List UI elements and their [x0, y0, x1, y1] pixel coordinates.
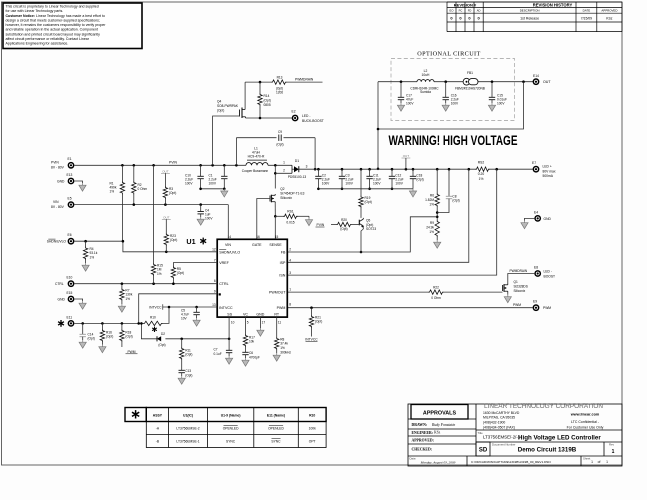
- svg-text:E9: E9: [533, 300, 537, 304]
- title block: [408, 404, 622, 466]
- svg-text:(Opt): (Opt): [170, 238, 177, 242]
- svg-text:GATE: GATE: [252, 243, 262, 247]
- svg-text:100k: 100k: [309, 427, 317, 431]
- capacitor C12: [391, 169, 393, 176]
- assembly options table: [125, 408, 326, 448]
- svg-text:PWM: PWM: [513, 303, 521, 307]
- wire ISP net: [287, 169, 469, 262]
- svg-text:(Opt): (Opt): [416, 177, 423, 181]
- svg-text:(Opt): (Opt): [217, 108, 224, 112]
- svg-text:Applications Engineering for a: Applications Engineering for assistance.: [6, 42, 69, 46]
- svg-text:8: 8: [289, 303, 291, 307]
- svg-text:7/15/09: 7/15/09: [581, 16, 592, 20]
- svg-text:100V: 100V: [373, 181, 381, 185]
- svg-text:(Opt): (Opt): [125, 335, 132, 339]
- svg-text:80V max: 80V max: [543, 169, 556, 173]
- svg-text:R10: R10: [150, 316, 156, 320]
- svg-text:8V - 80V: 8V - 80V: [51, 205, 65, 209]
- svg-text:SO8-PWRPAK: SO8-PWRPAK: [217, 104, 239, 108]
- svg-text:D1: D1: [295, 159, 299, 163]
- terminal E7 LED+: [533, 166, 540, 173]
- svg-text:DRAWN:: DRAWN:: [412, 423, 428, 427]
- svg-text:OUT: OUT: [403, 154, 410, 158]
- svg-text:10k: 10k: [249, 340, 255, 344]
- wire INTVCC net: [163, 306, 217, 308]
- svg-text:0 Ohm: 0 Ohm: [138, 187, 148, 191]
- capacitor C16: [445, 82, 447, 98]
- svg-text:This circuit is proprietary to: This circuit is proprietary to Linear Te…: [6, 5, 99, 9]
- svg-text:1%: 1%: [125, 297, 130, 301]
- resistor R8: [276, 317, 278, 337]
- svg-text:0.20: 0.20: [478, 172, 485, 176]
- svg-text:LT3756EMSE-1: LT3756EMSE-1: [176, 440, 199, 444]
- svg-text:11: 11: [278, 321, 282, 325]
- svg-text:E15: E15: [67, 291, 73, 295]
- svg-text:VC: VC: [243, 312, 248, 316]
- transistor Q1: [502, 285, 504, 291]
- svg-text:VREF: VREF: [219, 261, 229, 265]
- svg-text:R8: R8: [280, 337, 284, 341]
- svg-text:24.9k: 24.9k: [426, 225, 434, 229]
- svg-text:KSz: KSz: [434, 431, 441, 435]
- resistor R16: [101, 323, 103, 329]
- svg-text:ENGINEER:: ENGINEER:: [412, 431, 434, 435]
- svg-text:PWM: PWM: [543, 306, 551, 310]
- wire E13 to ground: [74, 181, 82, 183]
- wire switch node: [268, 164, 292, 166]
- resistor R4: [85, 241, 87, 246]
- svg-text:for use with Linear Technology: for use with Linear Technology parts.: [6, 9, 64, 13]
- capacitor C3: [341, 169, 343, 176]
- resistor R17: [245, 317, 247, 334]
- svg-text:E14: E14: [533, 74, 539, 78]
- svg-text:(Opt): (Opt): [264, 98, 271, 102]
- svg-text:BOOST: BOOST: [544, 274, 556, 278]
- svg-text:100V: 100V: [406, 102, 414, 106]
- svg-text:R4: R4: [90, 247, 94, 251]
- svg-text:D2: D2: [161, 332, 165, 336]
- svg-text:1: 1: [612, 449, 615, 455]
- svg-text:OUT: OUT: [162, 169, 169, 173]
- svg-text:FD: FD: [468, 9, 472, 13]
- svg-text:Sumida: Sumida: [420, 90, 431, 94]
- svg-text:however, it remains the custom: however, it remains the customers respon…: [6, 23, 107, 27]
- svg-text:16: 16: [256, 235, 260, 239]
- svg-text:R18: R18: [125, 330, 131, 334]
- svg-text:C:\ORCAD\WIN\CAPTURE\1319B\131: C:\ORCAD\WIN\CAPTURE\1319B\1319B_00_REV1…: [471, 460, 551, 464]
- svg-text:0 Ohm: 0 Ohm: [431, 296, 441, 300]
- svg-text:R21: R21: [315, 315, 321, 319]
- svg-text:R11: R11: [185, 348, 191, 352]
- svg-text:4: 4: [289, 258, 291, 262]
- svg-text:(Opt): (Opt): [340, 227, 347, 231]
- svg-text:E6: E6: [68, 233, 72, 237]
- svg-text:100V: 100V: [205, 216, 213, 220]
- svg-text:DESCRIPTION: DESCRIPTION: [520, 9, 540, 13]
- svg-text:R14: R14: [264, 94, 270, 98]
- svg-text:design a circuit that meets cu: design a circuit that meets customer-sup…: [6, 18, 100, 22]
- capacitor C5: [196, 307, 198, 312]
- svg-text:1st Release: 1st Release: [520, 16, 539, 20]
- svg-text:LED +: LED +: [543, 165, 552, 169]
- svg-text:0.015: 0.015: [286, 221, 294, 225]
- svg-text:9: 9: [214, 290, 216, 294]
- wire C10/C1 ground bus: [201, 188, 225, 190]
- svg-text:(Opt): (Opt): [366, 223, 373, 227]
- svg-text:0.1uF: 0.1uF: [214, 352, 222, 356]
- svg-text:(408)432-1900: (408)432-1900: [483, 420, 505, 424]
- svg-text:SS: SS: [227, 312, 232, 316]
- svg-text:Rev: Rev: [609, 443, 615, 447]
- svg-text:R16: R16: [106, 330, 112, 334]
- svg-text:PVIN: PVIN: [169, 160, 177, 164]
- svg-text:EO: EO: [450, 9, 454, 13]
- terminal E4 GND: [534, 215, 541, 222]
- svg-text:High Voltage LED Controller: High Voltage LED Controller: [518, 434, 601, 441]
- svg-text:and reliable operation in the: and reliable operation in the actual app…: [6, 28, 98, 32]
- resistor R18: [121, 323, 123, 329]
- svg-text:OUT: OUT: [163, 215, 170, 219]
- svg-text:R3: R3: [169, 187, 173, 191]
- svg-text:130k: 130k: [125, 293, 132, 297]
- svg-text:LT3756EMSE/-2/-1: LT3756EMSE/-2/-1: [483, 434, 521, 439]
- terminal E15 GND: [68, 296, 75, 303]
- wire SENSE pin: [274, 216, 276, 239]
- resistor R21: [311, 308, 313, 315]
- wire PWMDRAIN net label stub: [287, 81, 323, 83]
- resistor R14: [259, 82, 261, 93]
- svg-text:Date:: Date:: [410, 456, 417, 460]
- svg-text:LED -: LED -: [302, 114, 310, 118]
- svg-text:substitution and printed circu: substitution and printed circuit board l…: [6, 32, 101, 36]
- capacitor C8: [448, 169, 450, 196]
- svg-text:Cooper Bussmann: Cooper Bussmann: [242, 169, 269, 173]
- wire PWM net: [287, 307, 532, 309]
- terminal E9 PWM: [533, 304, 540, 311]
- svg-text:2: 2: [283, 169, 285, 173]
- ground at U1 GND pin: [259, 317, 261, 328]
- svg-text:PWM: PWM: [127, 350, 135, 354]
- capacitor C15: [491, 82, 493, 98]
- svg-text:www.linear.com: www.linear.com: [570, 413, 600, 417]
- capacitor C14: [82, 323, 84, 334]
- svg-text:R15: R15: [157, 263, 163, 267]
- svg-text:U1: U1: [186, 237, 195, 246]
- svg-text:(Opt): (Opt): [276, 143, 283, 147]
- revision history table: [447, 2, 622, 32]
- svg-text:REVISION HISTORY: REVISION HISTORY: [533, 2, 573, 7]
- wire PVIN to Q4 branch: [213, 116, 239, 165]
- resistor R7: [121, 284, 123, 288]
- svg-text:1%: 1%: [157, 272, 162, 276]
- svg-text:INTVCC: INTVCC: [149, 305, 162, 309]
- svg-text:APPROVALS: APPROVALS: [423, 411, 457, 417]
- svg-text:of: of: [598, 460, 601, 464]
- svg-text:HC9-470-R: HC9-470-R: [248, 154, 265, 158]
- svg-text:E10: E10: [67, 276, 73, 280]
- wire VIN/E5 net: [74, 204, 228, 206]
- svg-text:R6: R6: [430, 194, 434, 198]
- svg-text:Demo Circuit 1319B: Demo Circuit 1319B: [518, 446, 577, 453]
- svg-text:DATE: DATE: [583, 9, 591, 13]
- svg-text:CHECKED:: CHECKED:: [412, 448, 432, 452]
- terminal E5 VIN: [68, 201, 75, 208]
- svg-text:FB1: FB1: [467, 71, 473, 75]
- svg-text:LT3756EMSE-2: LT3756EMSE-2: [176, 427, 199, 431]
- svg-text:E5: E5: [68, 197, 72, 201]
- svg-text:12: 12: [212, 248, 216, 252]
- svg-text:100V: 100V: [209, 181, 217, 185]
- svg-text:10: 10: [231, 321, 235, 325]
- svg-text:E13: E13: [67, 173, 73, 177]
- svg-text:7: 7: [214, 258, 216, 262]
- capacitor C4: [200, 205, 202, 212]
- svg-text:1.82M: 1.82M: [425, 198, 434, 202]
- svg-text:500mA: 500mA: [543, 174, 554, 178]
- svg-text:SENSE: SENSE: [269, 243, 282, 247]
- wire Q1 drain to E8 PWMDRAIN: [508, 274, 535, 284]
- resistor RS1: [275, 215, 283, 217]
- svg-text:Q2: Q2: [280, 187, 284, 191]
- wire Q2 source to sense node: [274, 203, 276, 216]
- wire E11 net: [74, 322, 143, 324]
- svg-text:Document Number: Document Number: [492, 443, 516, 447]
- svg-text:E7: E7: [532, 161, 536, 165]
- svg-text:(Opt): (Opt): [185, 373, 192, 377]
- svg-text:10V: 10V: [181, 316, 188, 320]
- svg-text:1: 1: [591, 460, 593, 464]
- ferrite bead FB1: [463, 78, 470, 85]
- svg-text:C9: C9: [278, 130, 282, 134]
- svg-text:1: 1: [283, 161, 285, 165]
- svg-text:Customer Notice: Linear Techno: Customer Notice: Linear Technology has m…: [6, 14, 105, 18]
- svg-text:13: 13: [212, 303, 216, 307]
- svg-text:E1: E1: [68, 157, 72, 161]
- svg-text:PWMDRAIN: PWMDRAIN: [295, 78, 314, 82]
- diode D2: [157, 336, 161, 341]
- terminal E10 CTRL: [68, 280, 75, 287]
- svg-text:Sheet: Sheet: [583, 456, 591, 460]
- resistor RS2: [475, 167, 490, 171]
- op-amp U1 LT3756 controller IC: [217, 239, 287, 317]
- svg-text:(Opt): (Opt): [185, 353, 192, 357]
- transistor Q4: [239, 110, 241, 117]
- svg-text:CTRL: CTRL: [55, 282, 64, 286]
- wire E2 net: [246, 117, 293, 119]
- svg-text:PDS5100-13: PDS5100-13: [288, 175, 306, 179]
- capacitor C17: [400, 82, 402, 98]
- wire SHDN/UVLO net: [74, 240, 123, 242]
- svg-text:GND: GND: [544, 217, 552, 221]
- svg-text:GND: GND: [256, 312, 264, 316]
- svg-text:10uH: 10uH: [422, 73, 431, 77]
- svg-text:E2: E2: [292, 110, 296, 114]
- capacitor C18: [412, 169, 414, 176]
- svg-text:(Opt): (Opt): [106, 335, 113, 339]
- wire Q2 gate to U1 GATE pin: [257, 199, 270, 240]
- svg-text:Rudy Fonstatin: Rudy Fonstatin: [431, 423, 455, 427]
- capacitor C9: [278, 135, 280, 141]
- svg-text:RT: RT: [274, 312, 280, 316]
- svg-text:SHDN/UVLO: SHDN/UVLO: [219, 251, 240, 255]
- svg-text:REVISION #: REVISION #: [454, 2, 477, 7]
- svg-text:VIN: VIN: [53, 200, 59, 204]
- svg-text:1: 1: [606, 460, 608, 464]
- svg-text:PWMOUT: PWMOUT: [269, 291, 286, 295]
- terminal E2 LED- BUCK-BOOST: [292, 115, 299, 122]
- resistor R1: [121, 165, 123, 181]
- terminal E6 SHDN/UVLO: [68, 238, 75, 245]
- svg-text:Q4: Q4: [217, 100, 221, 104]
- transistor Q2: [269, 196, 271, 202]
- svg-text:1%: 1%: [110, 190, 115, 194]
- svg-text:VIN: VIN: [225, 243, 231, 247]
- svg-text:5: 5: [247, 321, 249, 325]
- svg-text:OPT: OPT: [309, 440, 316, 444]
- svg-text:SD: SD: [479, 448, 488, 454]
- svg-text:17: 17: [262, 321, 266, 325]
- svg-text:OUT: OUT: [543, 80, 551, 84]
- svg-text:100V: 100V: [322, 181, 330, 185]
- svg-text:R5: R5: [177, 267, 181, 271]
- svg-text:15: 15: [275, 235, 279, 239]
- svg-text:RS1: RS1: [287, 210, 294, 214]
- svg-text:ISN: ISN: [279, 273, 285, 277]
- svg-text:300kHz: 300kHz: [280, 351, 291, 355]
- svg-text:LTC Confidential -: LTC Confidential -: [571, 420, 600, 424]
- svg-text:LED -: LED -: [544, 269, 552, 273]
- svg-text:8V - 80V: 8V - 80V: [51, 166, 65, 170]
- svg-text:PC: PC: [459, 9, 463, 13]
- wire E4 to ground: [525, 218, 535, 220]
- svg-text:R22: R22: [433, 285, 439, 289]
- svg-text:PVIN: PVIN: [51, 161, 59, 165]
- wire ISN net: [287, 169, 496, 275]
- svg-text:ASSY: ASSY: [153, 414, 163, 418]
- svg-text:SOT23: SOT23: [366, 227, 376, 231]
- svg-text:R23: R23: [170, 234, 176, 238]
- svg-text:SYNC: SYNC: [226, 440, 236, 444]
- svg-text:6: 6: [214, 279, 216, 283]
- terminal E1 PVIN: [68, 162, 75, 169]
- svg-text:SHDN/UVLO: SHDN/UVLO: [47, 240, 67, 244]
- wire FB net from U1 pin2: [287, 217, 437, 252]
- capacitor C11: [369, 169, 371, 176]
- capacitor C10: [200, 165, 202, 176]
- svg-text:SYNC: SYNC: [271, 440, 281, 444]
- svg-text:4700pF: 4700pF: [249, 355, 260, 359]
- svg-text:ISP: ISP: [280, 261, 286, 265]
- svg-text:C7: C7: [214, 348, 218, 352]
- svg-text:100V: 100V: [345, 181, 353, 185]
- svg-text:MILPITAS, CA 95035: MILPITAS, CA 95035: [483, 415, 515, 419]
- svg-text:1%: 1%: [90, 256, 95, 260]
- svg-text:R9: R9: [430, 221, 434, 225]
- capacitor C6: [242, 351, 248, 353]
- wire PWMOUT net: [287, 291, 428, 293]
- svg-text:Q1: Q1: [514, 280, 518, 284]
- terminal E13 GND: [68, 178, 75, 185]
- svg-text:(Opt): (Opt): [315, 320, 322, 324]
- svg-text:PVIN: PVIN: [317, 223, 325, 227]
- svg-text:AD: AD: [477, 9, 481, 13]
- wire jumper from LED+ rail to OUT: [378, 82, 524, 169]
- inductor L1: [246, 163, 268, 166]
- svg-text:1%: 1%: [479, 177, 484, 181]
- svg-text:GND: GND: [58, 297, 66, 301]
- svg-text:GND: GND: [57, 179, 65, 183]
- svg-text:BUCK-BOOST: BUCK-BOOST: [302, 119, 324, 123]
- wire E15 to ground: [74, 299, 82, 301]
- svg-text:Siliconix: Siliconix: [514, 289, 526, 293]
- resistor R20: [331, 224, 336, 226]
- terminal E8 LED- BOOST: [534, 270, 541, 277]
- capacitor C13: [179, 369, 185, 371]
- svg-text:R19: R19: [365, 196, 371, 200]
- transistor Q5: [358, 220, 360, 226]
- svg-text:(Opt): (Opt): [169, 191, 176, 195]
- svg-text:PWMDRAIN: PWMDRAIN: [510, 269, 528, 273]
- svg-text:C6: C6: [249, 351, 253, 355]
- svg-text:1M: 1M: [157, 268, 162, 272]
- resistor R13: [271, 80, 287, 84]
- svg-text:For Customer Use Only: For Customer Use Only: [567, 425, 604, 429]
- diode D1: [291, 165, 293, 173]
- svg-text:CTRL: CTRL: [219, 282, 228, 286]
- svg-text:R7: R7: [125, 288, 129, 292]
- resistor R19: [360, 169, 362, 195]
- svg-text:C14: C14: [88, 332, 94, 336]
- svg-text:E8: E8: [534, 266, 538, 270]
- svg-text:100V: 100V: [185, 181, 193, 185]
- svg-text:LINEAR TECHNOLOGY CORPORATION: LINEAR TECHNOLOGY CORPORATION: [484, 403, 603, 410]
- svg-text:(Opt): (Opt): [365, 200, 372, 204]
- svg-text:R10: R10: [309, 414, 315, 418]
- resistor R11: [181, 339, 183, 347]
- resistor R6: [436, 169, 438, 193]
- svg-text:(408)434-0507 (FAX): (408)434-0507 (FAX): [483, 426, 515, 430]
- terminal E11 PWM/SYNC: [68, 320, 75, 327]
- svg-text:Siliconix: Siliconix: [280, 196, 292, 200]
- resistor R15: [153, 165, 155, 263]
- svg-text:affect circuit performance or: affect circuit performance or reliabilit…: [6, 37, 90, 41]
- inductor L2: [417, 80, 434, 82]
- svg-text:100V: 100V: [395, 181, 403, 185]
- wire CTRL net: [74, 283, 217, 285]
- svg-text:100V: 100V: [497, 102, 505, 106]
- resistor R9: [435, 220, 439, 237]
- svg-text:R20: R20: [341, 218, 347, 222]
- wire capacitor ground bus: [318, 188, 413, 190]
- svg-text:(Opt): (Opt): [177, 271, 184, 275]
- svg-text:OPTIONAL CIRCUIT: OPTIONAL CIRCUIT: [417, 51, 480, 58]
- wire SYNC pin9 net: [139, 294, 218, 324]
- svg-text:E11 (Name): E11 (Name): [267, 414, 285, 418]
- svg-text:3: 3: [289, 271, 291, 275]
- svg-text:E11: E11: [67, 315, 73, 319]
- capacitor C1: [223, 165, 225, 176]
- svg-text:OPENLED: OPENLED: [223, 427, 239, 431]
- resistor R5: [171, 266, 175, 279]
- svg-text:C13: C13: [185, 369, 191, 373]
- svg-text:3: 3: [306, 164, 308, 168]
- resistor R2: [133, 165, 135, 181]
- svg-text:(Opt): (Opt): [158, 343, 165, 347]
- resistor R22: [428, 290, 444, 294]
- svg-text:100V: 100V: [451, 102, 459, 106]
- capacitor C7: [228, 339, 230, 351]
- svg-text:FBM24519HS720NB: FBM24519HS720NB: [455, 86, 485, 90]
